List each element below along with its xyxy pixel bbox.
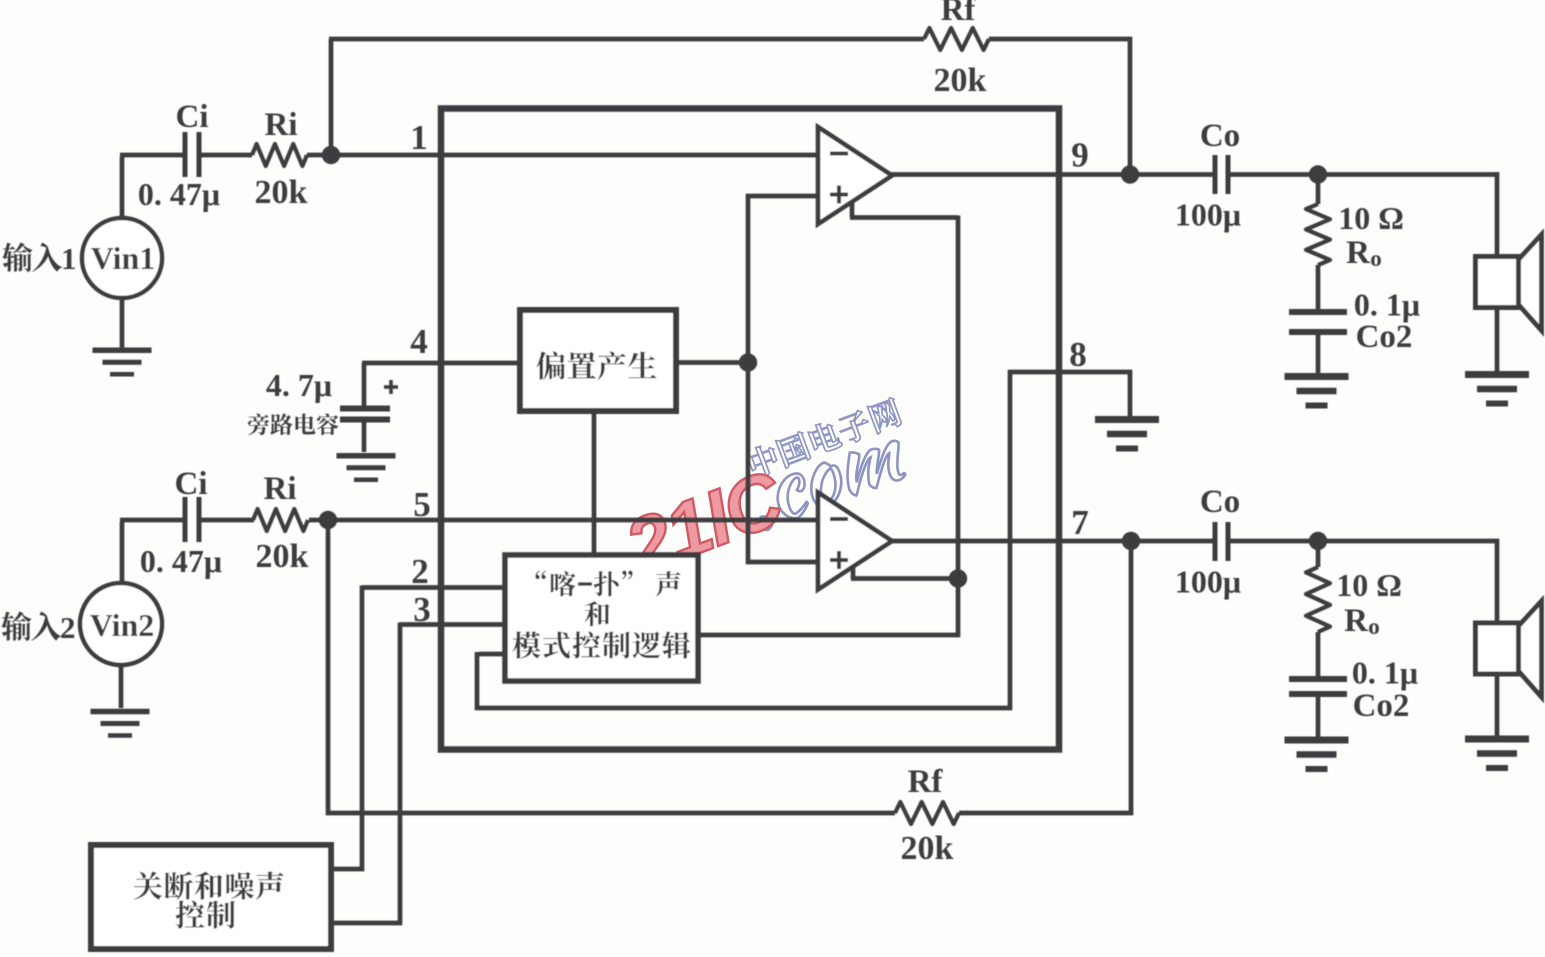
svg-text:10 Ω: 10 Ω — [1338, 200, 1404, 236]
svg-text:o: o — [1370, 246, 1382, 271]
svg-text:Rf: Rf — [908, 764, 944, 800]
svg-text:8: 8 — [1069, 335, 1087, 374]
svg-text:100μ: 100μ — [1175, 197, 1241, 233]
svg-text:1: 1 — [61, 241, 77, 276]
svg-text:0. 47μ: 0. 47μ — [140, 543, 222, 579]
svg-text:4: 4 — [410, 322, 428, 361]
svg-text:Co2: Co2 — [1353, 688, 1410, 724]
svg-text:1: 1 — [410, 118, 428, 157]
svg-text:Ri: Ri — [264, 471, 297, 507]
svg-text:0. 47μ: 0. 47μ — [138, 176, 220, 212]
svg-text:7: 7 — [1071, 503, 1089, 542]
svg-text:10 Ω: 10 Ω — [1336, 567, 1402, 603]
svg-text:9: 9 — [1071, 136, 1089, 175]
svg-text:Co: Co — [1200, 484, 1240, 520]
svg-text:R: R — [1344, 603, 1369, 639]
svg-text:2: 2 — [411, 552, 429, 591]
svg-text:3: 3 — [413, 590, 431, 629]
svg-text:20k: 20k — [934, 62, 987, 99]
svg-text:2: 2 — [60, 610, 76, 645]
svg-text:4. 7μ: 4. 7μ — [266, 367, 332, 403]
svg-text:Ci: Ci — [175, 466, 208, 502]
svg-text:Ci: Ci — [176, 99, 209, 135]
svg-text:Ri: Ri — [265, 107, 298, 143]
svg-text:0. 1μ: 0. 1μ — [1352, 655, 1418, 691]
svg-text:Rf: Rf — [941, 0, 977, 28]
svg-text:0. 1μ: 0. 1μ — [1354, 287, 1420, 323]
svg-text:R: R — [1346, 235, 1371, 271]
svg-text:20k: 20k — [255, 174, 308, 211]
svg-text:Co: Co — [1200, 118, 1240, 154]
svg-text:Vin2: Vin2 — [90, 607, 155, 643]
svg-text:100μ: 100μ — [1175, 564, 1241, 600]
svg-text:20k: 20k — [901, 830, 954, 867]
svg-text:20k: 20k — [256, 538, 309, 575]
svg-text:o: o — [1368, 614, 1380, 639]
svg-text:Co2: Co2 — [1356, 319, 1413, 355]
svg-text:Vin1: Vin1 — [91, 240, 156, 276]
svg-text:5: 5 — [413, 485, 431, 524]
